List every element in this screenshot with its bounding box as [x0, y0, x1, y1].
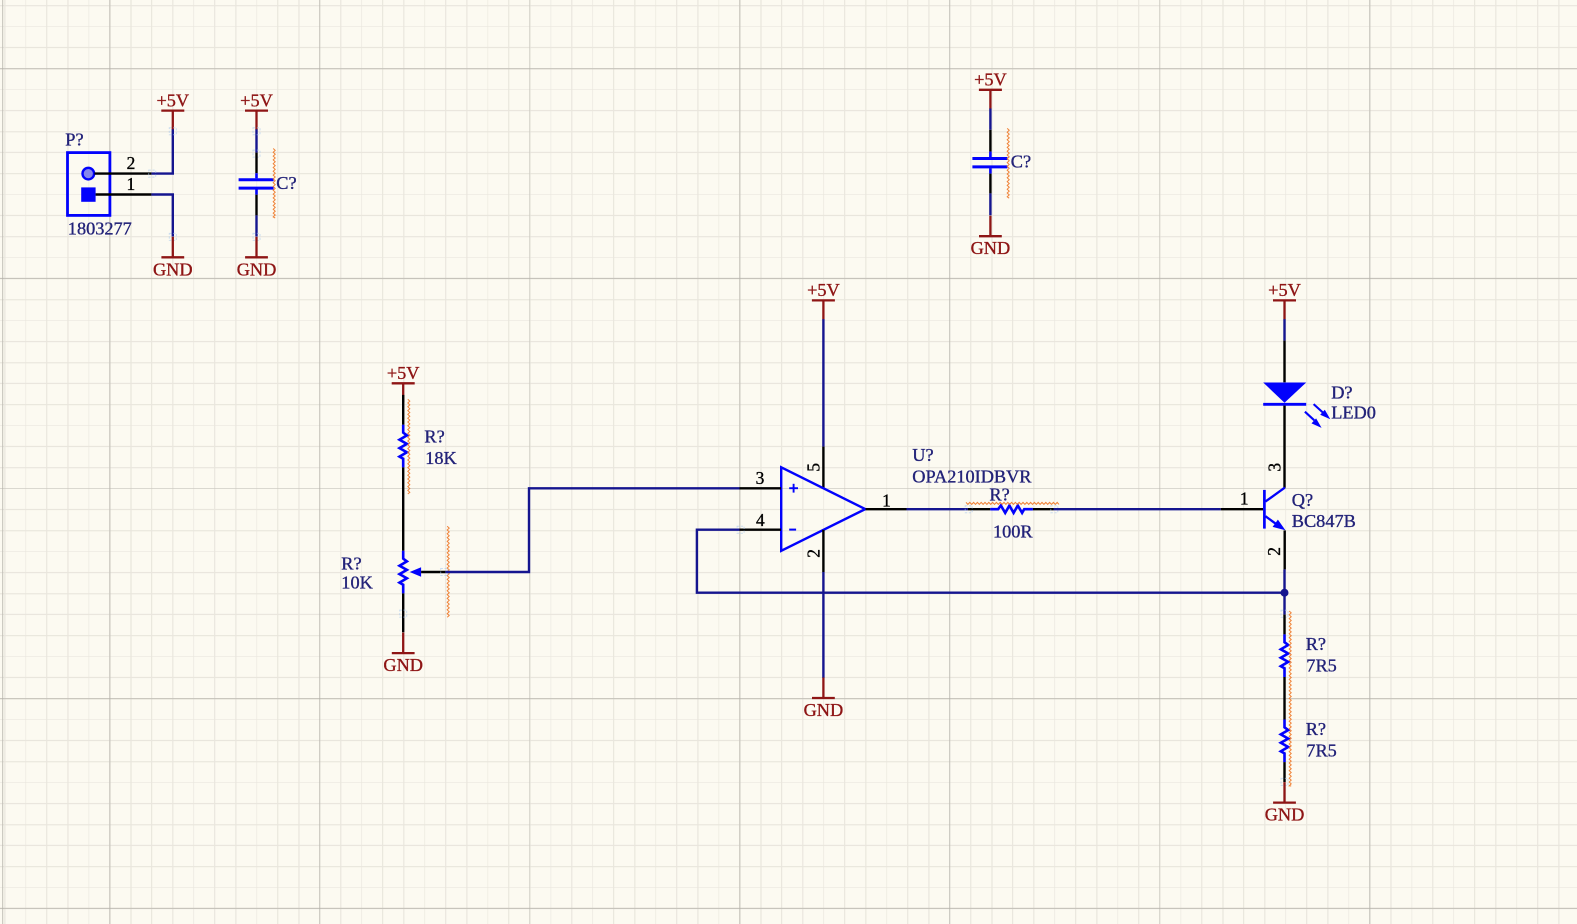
svg-text:5: 5 [803, 463, 823, 472]
ground GND (op-amp) [804, 678, 844, 721]
node marker at +5V stub (C? left) [253, 128, 260, 135]
resistor R? 100R [968, 484, 1054, 541]
svg-text:1: 1 [1240, 489, 1249, 509]
node marker at op-amp pin 4 [737, 526, 744, 533]
svg-text:C?: C? [276, 173, 296, 193]
wire wiper to op-amp noninverting input [445, 488, 739, 572]
wire 18K to 10K [402, 467, 404, 550]
svg-text:BC847B: BC847B [1292, 511, 1356, 531]
node marker above GND (C? left) [253, 233, 260, 240]
wire emitter to sense resistors [1283, 569, 1285, 614]
svg-text:10K: 10K [341, 572, 373, 592]
svg-text:P?: P? [65, 129, 83, 149]
node marker at wiper wire [441, 569, 448, 576]
wire capacitor to GND [255, 215, 257, 236]
node marker at +5V stub [169, 128, 176, 135]
svg-text:+5V: +5V [240, 90, 273, 110]
power +5V (connector pin 2) [156, 90, 189, 129]
wire op-amp pin 2 to GND [822, 572, 824, 678]
wire +5V to LED anode [1283, 319, 1285, 341]
power +5V (C? left) [240, 90, 273, 129]
compile squiggle (10K) [447, 526, 449, 617]
node marker below 10K [400, 610, 407, 617]
svg-text:R?: R? [989, 484, 1009, 504]
svg-text:2: 2 [804, 549, 824, 558]
svg-text:GND: GND [1265, 805, 1305, 825]
svg-text:1: 1 [127, 174, 136, 194]
svg-text:R?: R? [424, 426, 444, 446]
svg-text:GND: GND [804, 700, 844, 720]
power +5V (LED) [1268, 280, 1301, 319]
node marker at 100R left pin [965, 506, 972, 513]
svg-text:+5V: +5V [1268, 280, 1301, 300]
svg-text:+5V: +5V [156, 90, 189, 110]
connector pin 2 (circle pad) [83, 153, 152, 179]
svg-text:LED0: LED0 [1331, 403, 1376, 423]
compile squiggle (7R5 chain) [1289, 611, 1291, 786]
compile squiggle (C? left) [273, 149, 275, 218]
svg-text:R?: R? [1306, 634, 1326, 654]
svg-text:GND: GND [971, 238, 1011, 258]
capacitor C? (left) [239, 153, 297, 216]
wire connector pin 1 to GND [151, 195, 172, 237]
wire +5V to capacitor [255, 129, 257, 152]
power +5V (C? right) [974, 70, 1007, 109]
node marker at capacitor top pin [253, 150, 260, 157]
ground GND (C? left) [237, 237, 277, 279]
power +5V (op-amp) [807, 280, 840, 319]
ground GND (connector) [153, 237, 193, 279]
svg-text:OPA210IDBVR: OPA210IDBVR [912, 467, 1032, 487]
ground GND (sense) [1265, 782, 1305, 825]
compile squiggle (C? right) [1007, 128, 1009, 198]
svg-text:3: 3 [756, 468, 765, 488]
capacitor C? (right) [972, 130, 1031, 194]
svg-text:3: 3 [1264, 463, 1284, 472]
svg-text:100R: 100R [993, 521, 1033, 541]
wire +5V to capacitor (right) [989, 109, 991, 130]
svg-text:1: 1 [882, 491, 891, 511]
node marker at 100R right pin [1051, 506, 1058, 513]
node marker at pin 2 wire end [149, 170, 156, 177]
svg-text:+5V: +5V [387, 363, 420, 383]
svg-text:GND: GND [237, 259, 277, 279]
op-amp U? OPA210IDBVR [740, 445, 1033, 572]
junction dot at emitter node [1281, 589, 1289, 597]
svg-text:7R5: 7R5 [1306, 741, 1336, 761]
connector P? 1803277 [65, 129, 131, 238]
svg-text:Q?: Q? [1292, 490, 1313, 510]
svg-text:4: 4 [756, 510, 765, 530]
resistor R? 7R5 (lower) [1281, 719, 1337, 782]
potentiometer R? 10K [341, 551, 445, 633]
wire capacitor to GND (right) [989, 193, 991, 215]
transistor Q? BC847B [1221, 446, 1356, 569]
compile squiggle (18K) [408, 399, 410, 494]
ground GND (divider) [383, 633, 423, 676]
svg-text:GND: GND [383, 655, 423, 675]
power +5V (divider) [387, 363, 420, 402]
svg-text:+5V: +5V [974, 70, 1007, 90]
svg-text:U?: U? [912, 445, 933, 465]
node marker above GND (sense) [1281, 778, 1288, 785]
svg-text:1803277: 1803277 [68, 218, 132, 238]
wire between 7R5 resistors [1283, 677, 1285, 720]
resistor R? 18K [400, 395, 458, 468]
wire +5V to op-amp pin 5 [822, 319, 824, 447]
node marker above GND (connector) [169, 233, 176, 240]
wire feedback from inverting input to emitter node [697, 530, 1285, 593]
svg-text:7R5: 7R5 [1306, 655, 1336, 675]
svg-text:+5V: +5V [807, 280, 840, 300]
svg-text:R?: R? [1306, 719, 1326, 739]
svg-text:2: 2 [127, 153, 136, 173]
LED D? LED0 [1263, 341, 1376, 446]
svg-text:R?: R? [341, 553, 361, 573]
wire op-amp output to 100R [907, 508, 968, 510]
svg-text:GND: GND [153, 259, 193, 279]
svg-text:2: 2 [1264, 547, 1284, 556]
ground GND (C? right) [971, 216, 1011, 259]
compile squiggle (100R) [966, 502, 1059, 504]
svg-text:C?: C? [1011, 151, 1031, 171]
node marker above R 7R5 [1281, 610, 1288, 617]
connector pin 1 (square pad) [81, 174, 151, 202]
svg-text:D?: D? [1331, 382, 1352, 402]
wire +5V to connector pin 2 [151, 129, 172, 173]
wire 100R to transistor base [1054, 508, 1221, 510]
resistor R? 7R5 (upper) [1281, 615, 1337, 677]
svg-text:18K: 18K [425, 448, 457, 468]
